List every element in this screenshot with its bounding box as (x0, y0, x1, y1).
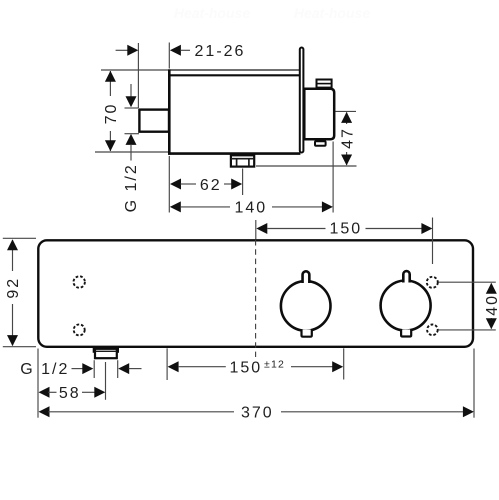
arrow left 370 (39, 406, 50, 417)
left knob circle (281, 281, 331, 331)
arrow right 62 (231, 179, 242, 190)
svg-text:21-26: 21-26 (195, 43, 246, 60)
arrow up 40 (486, 283, 497, 294)
svg-text:370: 370 (241, 405, 274, 422)
svg-text:47: 47 (339, 127, 356, 149)
ext line 150 left (255, 220, 257, 239)
arrow right 370 (463, 406, 474, 417)
dim 21-26 line (180, 49, 190, 51)
ext line connector left edge (137, 43, 139, 108)
inlet connector G1/2 (139, 110, 169, 132)
right knob neck (403, 271, 409, 282)
svg-text:Heat-house: Heat-house (294, 5, 370, 21)
arrow up 92 (7, 239, 18, 250)
dim 70 line lower (109, 131, 111, 151)
wall plate (300, 48, 304, 153)
knob body (side) (304, 89, 334, 139)
arrow right at connector ext (127, 45, 138, 56)
ext line body top (101, 69, 168, 71)
dim 58 line left (48, 391, 56, 393)
svg-text:40: 40 (484, 294, 499, 316)
arrow left 58 (39, 387, 50, 398)
screw hole top left (74, 276, 85, 287)
arrow left 140 (170, 201, 181, 212)
ext line centerline right (336, 110, 357, 112)
svg-text:70: 70 (103, 103, 120, 125)
dim 40 line lower (490, 318, 492, 329)
body top face line (168, 69, 300, 71)
outlet nut (side) (231, 155, 254, 166)
ext line knob face (332, 142, 334, 213)
dim 21-26 leader left (116, 49, 129, 51)
dim 150pm line left (178, 366, 226, 368)
svg-text:±12: ±12 (264, 358, 285, 370)
ext line connector top (125, 107, 139, 109)
dim 150 line left (267, 228, 325, 230)
dim 58 line right (82, 391, 95, 393)
ext line nut bottom right (256, 165, 357, 167)
arrow left at fitting right (118, 363, 129, 374)
arrow right 150pm (332, 361, 343, 372)
dim 70 line upper (109, 71, 111, 96)
center dashed line (255, 240, 257, 357)
left knob neck (303, 271, 310, 283)
outlet fitting front ear left (93, 348, 95, 353)
svg-text:92: 92 (5, 277, 22, 299)
ext line body left lower (168, 156, 170, 213)
svg-text:150: 150 (230, 359, 263, 376)
svg-text:58: 58 (59, 385, 81, 402)
screw hole bottom right (427, 325, 438, 336)
dim 47 line upper (346, 112, 348, 124)
knob bottom tab (side) (315, 141, 326, 146)
dim G1/2 leader left (72, 368, 84, 370)
arrow down 70 (105, 140, 116, 151)
ext line 40 top (439, 281, 496, 283)
body left edge (168, 69, 171, 154)
dim G1/2 leader below (130, 144, 132, 160)
dim G1/2 leader above (130, 84, 132, 105)
arrow right at fitting left (82, 363, 93, 374)
tab inner line (316, 83, 332, 85)
dim 150pm line right (291, 366, 333, 368)
dim 92 line upper (12, 240, 14, 271)
svg-text:150: 150 (329, 220, 362, 237)
arrow up 47 (341, 112, 352, 123)
fitting inner line (95, 350, 116, 352)
nut facet line right (248, 159, 250, 166)
dim 62 line right (224, 183, 232, 185)
ext line body bottom (95, 151, 169, 153)
arrow left 150 (256, 223, 267, 234)
dim 370 line left (48, 411, 234, 413)
body bottom edge (168, 152, 300, 155)
dim 150 line right (366, 228, 422, 230)
ext line 370 left (37, 349, 39, 418)
svg-text:Heat-house: Heat-house (174, 5, 250, 21)
arrow right 58 (94, 387, 105, 398)
ext line 40 bottom (438, 329, 496, 331)
arrow up 70 (105, 71, 116, 82)
dim 370 line right (281, 411, 463, 413)
arrow left 150pm (168, 361, 179, 372)
right knob bottom tab (401, 330, 411, 337)
arrow down at connector top (126, 96, 137, 107)
dim 62 line left (181, 183, 197, 185)
dim 47 line lower (346, 152, 348, 165)
svg-text:G 1/2: G 1/2 (123, 163, 140, 212)
nut center line (242, 169, 244, 196)
nut top line (231, 158, 254, 160)
arrow up at connector bottom (126, 134, 137, 145)
ext line connector bottom (125, 133, 140, 135)
shower bar (38, 240, 473, 346)
outlet fitting front (95, 349, 117, 358)
screw hole bottom left (74, 324, 85, 335)
dim 140 line right (272, 206, 322, 208)
nut facet line left (236, 159, 238, 166)
knob grip tab (side) (317, 80, 332, 88)
dim 140 line left (180, 206, 230, 208)
arrow left at body ext (170, 45, 181, 56)
fitting ext line right (117, 360, 119, 378)
fitting ext line left (93, 360, 95, 378)
ext line bar bottom left (3, 346, 36, 348)
arrow down 47 (341, 155, 352, 166)
arrow right 140 (322, 201, 333, 212)
dim 92 line lower (12, 304, 14, 346)
ext line 150pm right (343, 348, 345, 379)
ext line 370 right (473, 349, 475, 418)
dim G1/2 leader right (129, 368, 142, 370)
outlet fitting front ear right (117, 348, 119, 353)
arrow down 40 (486, 318, 497, 329)
body inner top edge (168, 74, 300, 76)
screw hole top right (427, 277, 438, 288)
arrow down 92 (7, 335, 18, 346)
left knob bottom tab (302, 330, 312, 337)
ext line 150pm left (166, 348, 168, 380)
svg-text:140: 140 (234, 200, 267, 217)
dim 40 line upper (490, 284, 492, 293)
arrow right 150 (421, 223, 432, 234)
svg-text:G 1/2: G 1/2 (20, 361, 69, 378)
ext line 150 right (432, 218, 434, 265)
ext line bar top left (3, 237, 36, 239)
right knob circle (381, 281, 431, 331)
fitting center line (105, 362, 107, 400)
ext line body left upper (168, 43, 170, 69)
svg-text:62: 62 (200, 177, 222, 194)
arrow left 62 (170, 179, 181, 190)
